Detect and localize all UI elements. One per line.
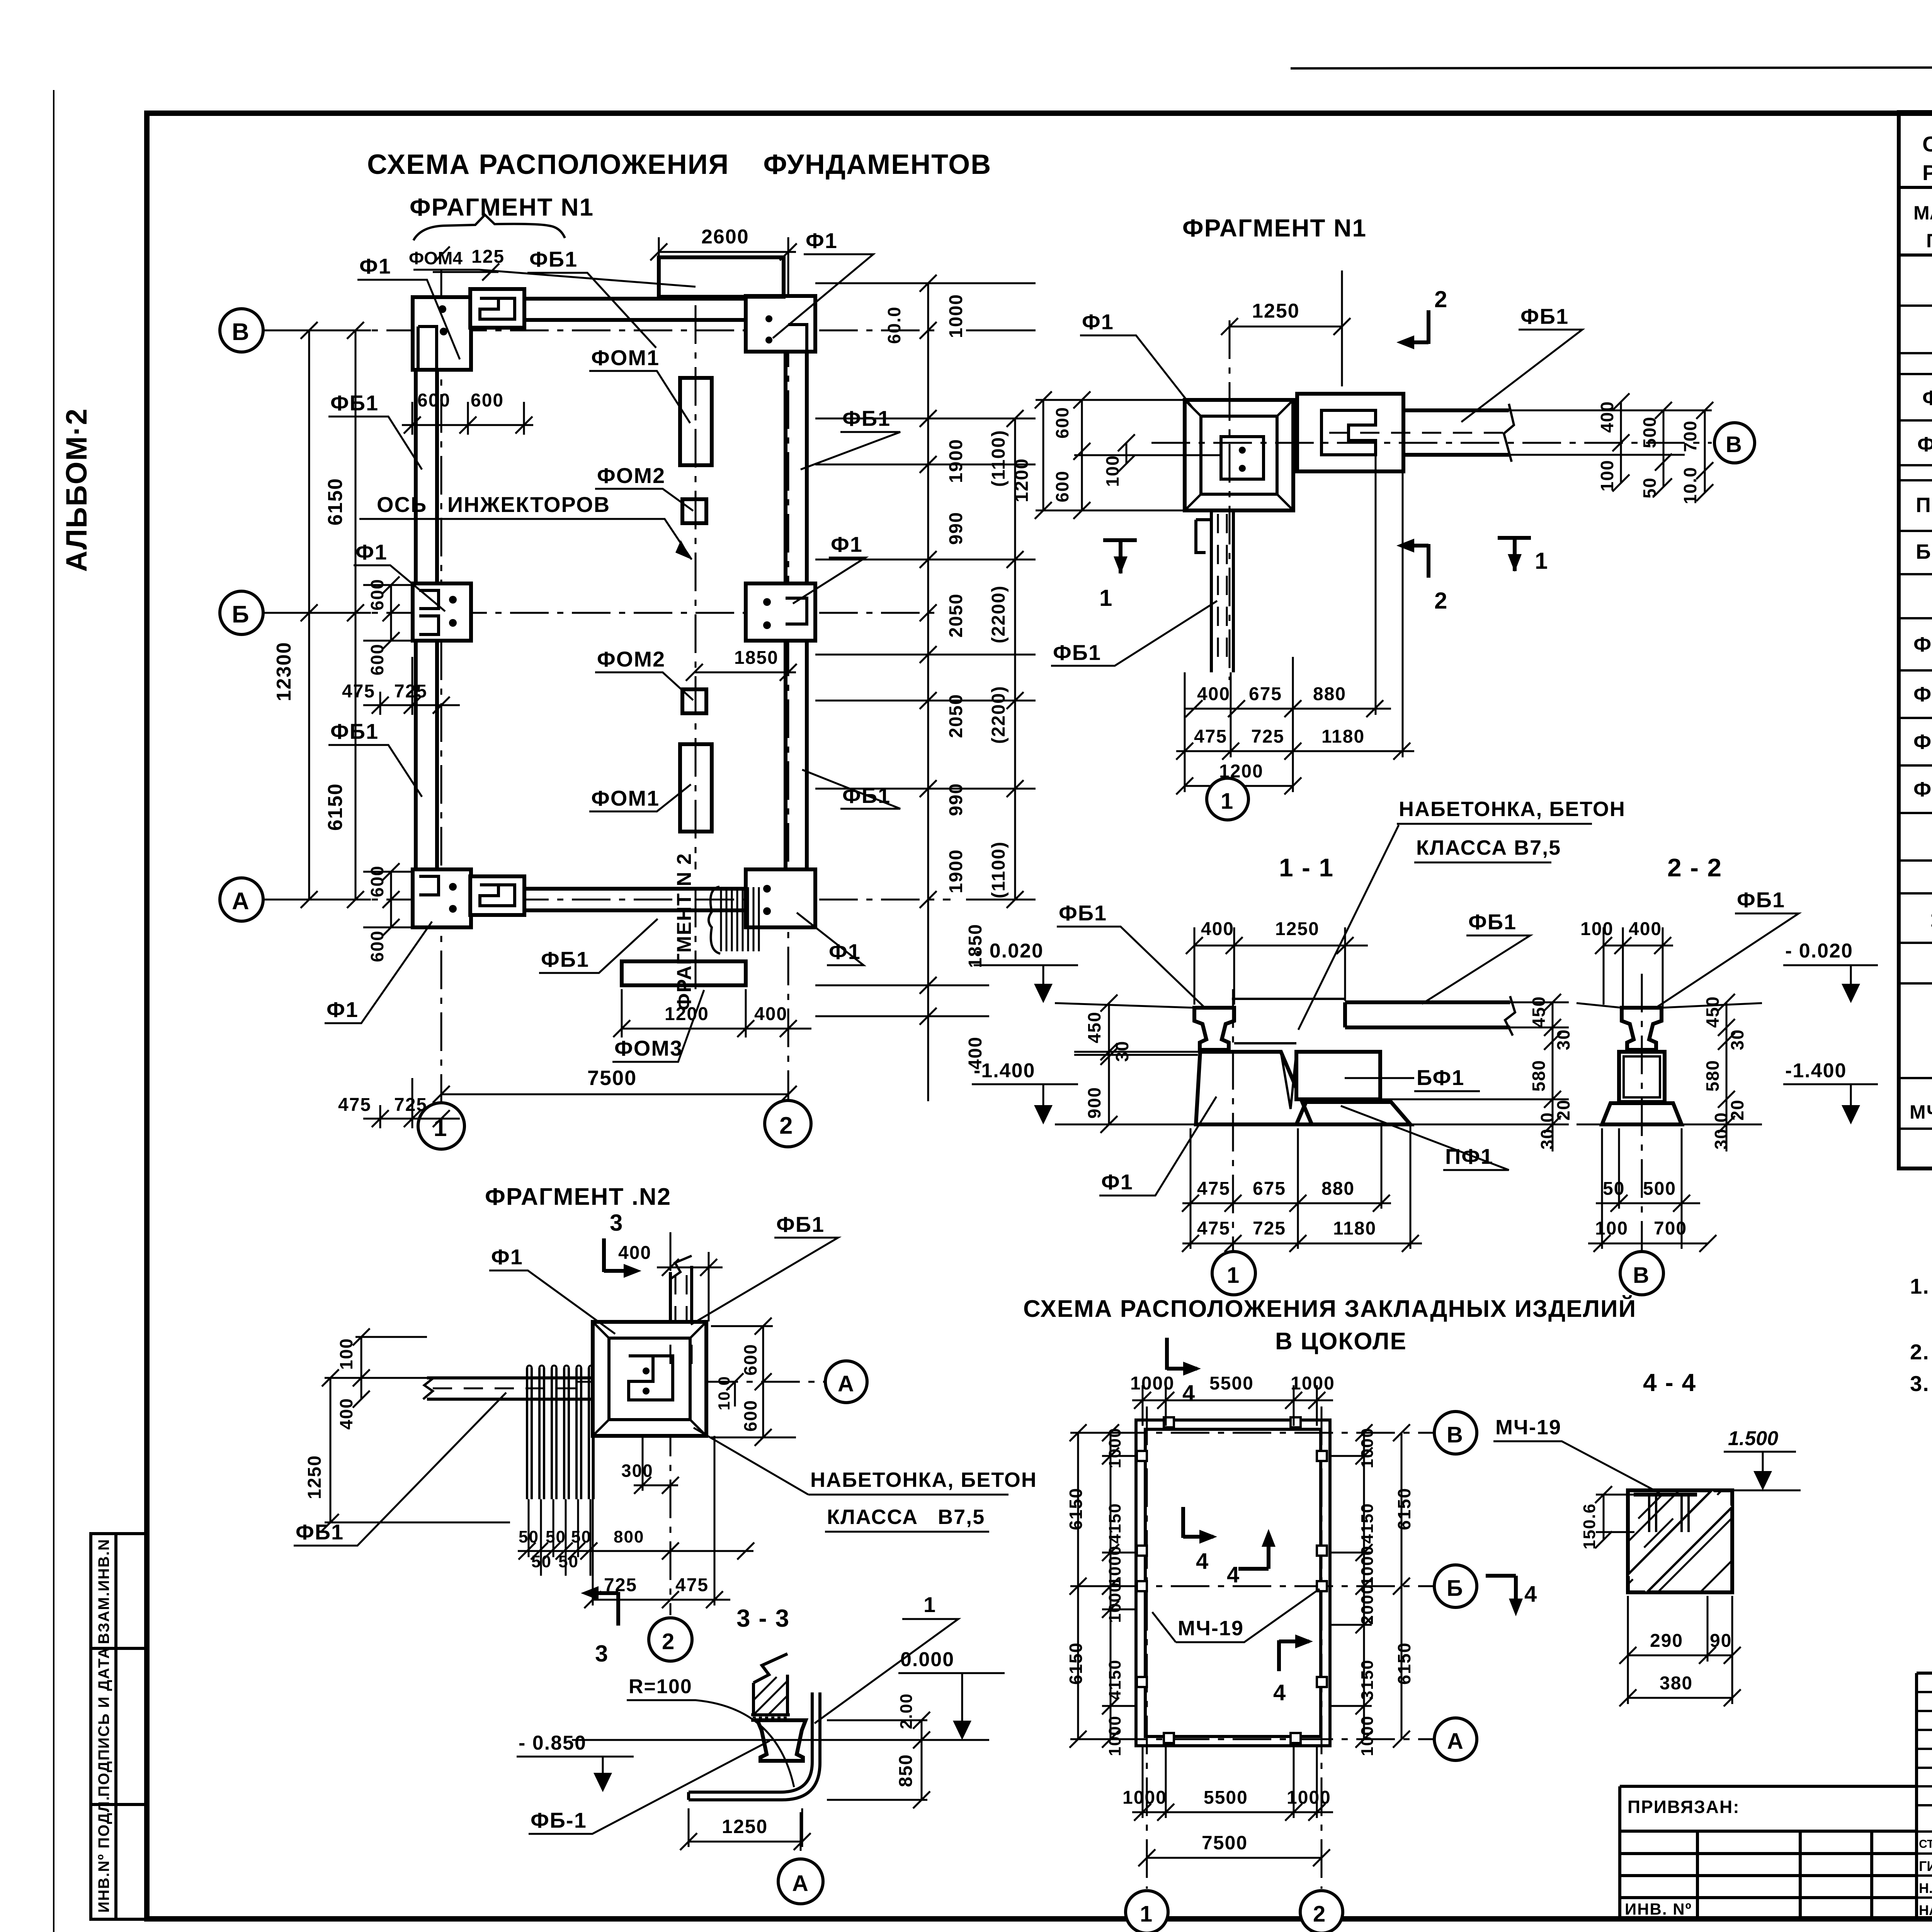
svg-text:475: 475 (342, 681, 375, 702)
svg-text:475: 475 (1197, 1179, 1230, 1199)
svg-text:2600: 2600 (701, 226, 749, 248)
outer thin sheet border left (53, 90, 54, 1932)
svg-text:3 - 3: 3 - 3 (736, 1604, 790, 1632)
svg-text:725: 725 (1251, 726, 1284, 747)
svg-text:ФБ1: ФБ1 (1059, 901, 1107, 925)
fragment N2 axis circle A (825, 1361, 867, 1403)
svg-text:3. РАЗМЕРЫ В СКОБКАХ ДАНЫ ДЛЯ: 3. РАЗМЕРЫ В СКОБКАХ ДАНЫ ДЛЯ МЕТАНТЕНКО… (1910, 1371, 1932, 1396)
svg-text:В: В (1633, 1263, 1650, 1288)
svg-text:30: 30 (1727, 1029, 1747, 1050)
fragment N2 rebar comb (527, 1368, 594, 1499)
svg-text:450: 450 (1702, 996, 1723, 1028)
svg-text:ФОМ2: ФОМ2 (1913, 683, 1932, 706)
svg-text:4 - 4: 4 - 4 (1643, 1369, 1696, 1396)
pad F1 top-right (746, 296, 815, 352)
svg-text:АЛЬБОМ·2: АЛЬБОМ·2 (60, 408, 93, 572)
equipment foundation FOM4 (659, 257, 784, 297)
svg-text:50: 50 (558, 1552, 579, 1571)
svg-text:2: 2 (779, 1112, 793, 1139)
svg-text:3: 3 (595, 1641, 609, 1667)
svg-text:(1100): (1100) (988, 430, 1009, 487)
axis line B (263, 330, 943, 332)
svg-text:5500: 5500 (1209, 1373, 1254, 1394)
svg-text:300: 300 (621, 1461, 653, 1481)
zakladnye section mark 4 top (1167, 1338, 1197, 1370)
svg-text:РАСПОЛОЖЕНИЯ ЗАКЛАДНЫХ ИЗДЕЛИЙ: РАСПОЛОЖЕНИЯ ЗАКЛАДНЫХ ИЗДЕЛИЙ В ЦОКОЛЕ (1922, 160, 1932, 185)
svg-text:ФОМ2: ФОМ2 (597, 647, 665, 671)
fragment N1 pad inner bevel (1201, 416, 1277, 494)
injector axis line with arrow (359, 519, 692, 560)
svg-text:ФБ1: ФБ1 (529, 247, 578, 271)
pad bottom-left dots (449, 883, 457, 891)
section 2-2 FB1 tee profile (1622, 1008, 1662, 1050)
svg-text:МАРКА: МАРКА (1913, 202, 1932, 224)
svg-text:2050: 2050 (946, 694, 966, 738)
section 1-1 F1 trapezoid (1196, 1052, 1312, 1124)
svg-text:4: 4 (1524, 1582, 1537, 1607)
svg-text:725: 725 (1253, 1218, 1286, 1239)
section 2-2 axis vertical (1641, 974, 1643, 1251)
pad top-right dots (765, 315, 772, 322)
svg-text:ВЗАМ.ИНВ.N: ВЗАМ.ИНВ.N (95, 1539, 112, 1644)
svg-text:1000: 1000 (1105, 1545, 1124, 1586)
svg-text:СХЕМА РАСПОЛОЖЕНИЯ ЗАКЛАДНЫХ И: СХЕМА РАСПОЛОЖЕНИЯ ЗАКЛАДНЫХ ИЗДЕЛИЙ (1023, 1295, 1636, 1322)
fragment N2 beam inside pad dashed (670, 1345, 692, 1376)
svg-text:-1.400: -1.400 (974, 1060, 1035, 1082)
fragment N2 beam top break (670, 1256, 692, 1279)
fragment N2 section mark 3 lower (592, 1592, 618, 1626)
svg-text:100: 100 (1595, 1218, 1628, 1239)
svg-text:475: 475 (338, 1095, 371, 1115)
fragment N2 axis 2 vertical (670, 1232, 672, 1615)
equipment foundation FOM2 lower (682, 689, 706, 713)
svg-text:(2200): (2200) (988, 585, 1009, 643)
rebar comb fragment2 zone (721, 887, 759, 951)
svg-text:725: 725 (394, 1095, 427, 1115)
svg-text:ИНВ. Nº: ИНВ. Nº (1625, 1900, 1692, 1918)
svg-text:0.000: 0.000 (900, 1648, 954, 1671)
svg-text:1. ДАННЫЙ ЧЕРТЕЖ СМОТРИТЕ СОВ: 1. ДАННЫЙ ЧЕРТЕЖ СМОТРИТЕ СОВМЕСТНО С ЛИ… (1910, 1274, 1932, 1298)
fragment N2 beam from top (670, 1266, 692, 1345)
section 4-4 top plate (1634, 1493, 1697, 1497)
svg-text:400: 400 (1597, 401, 1617, 433)
section 1-1 FB1 tee profile (1194, 1008, 1234, 1050)
pad top-left notch (418, 327, 437, 370)
svg-text:Ф1: Ф1 (1922, 386, 1932, 410)
zakladnye plan walls (1136, 1420, 1330, 1746)
svg-text:3: 3 (610, 1210, 623, 1236)
svg-text:В: В (1726, 432, 1743, 457)
svg-text:ФБ1: ФБ1 (776, 1212, 825, 1236)
svg-text:10.0: 10.0 (715, 1376, 733, 1410)
svg-text:В: В (232, 319, 250, 345)
svg-text:1000: 1000 (1130, 1373, 1175, 1394)
svg-text:1900: 1900 (946, 849, 966, 893)
svg-text:675: 675 (1253, 1179, 1286, 1199)
zakladnye MCH squares left (1137, 1451, 1147, 1461)
pad F1 mid-right (746, 583, 815, 641)
svg-text:4: 4 (1196, 1549, 1209, 1574)
section 1-1 PF1 trapezoid (1296, 1102, 1410, 1124)
svg-text:450: 450 (1529, 996, 1549, 1028)
zakladnye section mark 4 inner mid (1238, 1540, 1269, 1569)
beam anchor inner top-left (480, 298, 515, 319)
svg-text:1850: 1850 (734, 648, 779, 668)
svg-text:1200: 1200 (1012, 458, 1032, 502)
section 1-1 BF1 block (1296, 1052, 1380, 1099)
pad F1 bottom-left (413, 869, 471, 927)
svg-text:475: 475 (675, 1575, 709, 1595)
svg-text:5500: 5500 (1204, 1787, 1248, 1808)
svg-text:450: 450 (1084, 1011, 1104, 1043)
svg-text:700: 700 (1680, 420, 1700, 452)
svg-text:ОСЬ ИНЖЕКТОРОВ: ОСЬ ИНЖЕКТОРОВ (377, 492, 610, 517)
equipment foundation FOM2 upper (682, 499, 706, 523)
svg-text:НАБЕТОНКА, БЕТОН: НАБЕТОНКА, БЕТОН (1399, 798, 1626, 821)
svg-text:НАЧ.АСО: НАЧ.АСО (1919, 1902, 1932, 1918)
svg-text:БФ1: БФ1 (1417, 1065, 1464, 1090)
svg-text:ФРАГМЕНТ .N2: ФРАГМЕНТ .N2 (485, 1184, 671, 1210)
svg-text:ФБ1: ФБ1 (1520, 304, 1569, 328)
svg-text:4150: 4150 (1105, 1659, 1124, 1700)
axis circle B2 (220, 591, 263, 634)
svg-text:Ф1: Ф1 (1082, 310, 1114, 334)
svg-text:1000: 1000 (1358, 1545, 1377, 1586)
equipment foundation FOM1 lower (680, 744, 712, 832)
beam anchor inner bottom-left (480, 885, 515, 906)
svg-text:600: 600 (417, 390, 451, 411)
svg-text:675: 675 (1249, 684, 1282, 704)
section 2-2 pad trapezoid (1602, 1103, 1682, 1124)
svg-text:МЧ-19: МЧ-19 (1495, 1416, 1561, 1439)
fragment N1 section mark 1 right (1498, 538, 1531, 571)
svg-text:1.500: 1.500 (1728, 1427, 1778, 1450)
svg-text:880: 880 (1321, 1179, 1355, 1199)
equipment foundation FOM3 (622, 961, 746, 985)
svg-text:4150: 4150 (1105, 1503, 1124, 1544)
svg-text:4150: 4150 (1358, 1503, 1377, 1544)
zakladnye section mark 4 inner lower (1279, 1640, 1309, 1671)
svg-text:Ф1: Ф1 (359, 254, 391, 278)
svg-text:ФБ1: ФБ1 (296, 1520, 344, 1544)
fragment N1 axis circle B (1714, 423, 1755, 463)
section 3-3 hatched wall block (753, 1654, 787, 1715)
zakladnye MCH squares right (1317, 1451, 1327, 1461)
svg-text:(1100): (1100) (988, 841, 1009, 898)
fragment N1 section mark 2 upper (1406, 310, 1429, 344)
axis line A (263, 899, 951, 901)
svg-text:6150: 6150 (1066, 1488, 1086, 1530)
zakladnye axis circles (1434, 1412, 1477, 1454)
zakladnye section mark 4 right of B2 (1486, 1576, 1516, 1605)
svg-text:Ф1: Ф1 (1101, 1170, 1133, 1194)
svg-text:1: 1 (1099, 585, 1113, 611)
svg-text:90: 90 (1710, 1631, 1732, 1651)
svg-text:100: 100 (1580, 919, 1614, 939)
fragment N2 anchor box (629, 1356, 673, 1400)
section 1-1 ground lines (1055, 1003, 1569, 1124)
svg-text:10.0: 10.0 (1680, 466, 1700, 504)
svg-text:100: 100 (1597, 459, 1617, 492)
beam anchor housing bottom-left (470, 876, 524, 915)
svg-text:1: 1 (1221, 789, 1234, 814)
svg-text:ФОМ1: ФОМ1 (591, 345, 660, 370)
svg-text:600: 600 (1052, 470, 1072, 502)
svg-text:7500: 7500 (1202, 1832, 1248, 1854)
svg-text:ФБ1: ФБ1 (1053, 640, 1101, 665)
svg-text:400: 400 (618, 1243, 651, 1263)
svg-text:6150: 6150 (1066, 1642, 1086, 1685)
svg-text:1000: 1000 (1122, 1787, 1167, 1808)
svg-text:400: 400 (1201, 919, 1234, 939)
fragment N1 anchor box (1221, 437, 1264, 479)
svg-text:600: 600 (740, 1344, 760, 1376)
pad mid-right dots (763, 598, 771, 606)
svg-text:ФБ1: ФБ1 (1917, 433, 1932, 456)
axis circle 2 (765, 1100, 811, 1147)
fragment N2 beam from left (427, 1378, 593, 1399)
svg-text:100: 100 (336, 1338, 356, 1370)
svg-text:60.0: 60.0 (884, 306, 904, 344)
svg-text:Н.КОНТР.: Н.КОНТР. (1919, 1880, 1932, 1896)
section 1-1 beam break (1505, 996, 1515, 1036)
svg-text:- 0.020: - 0.020 (1785, 940, 1853, 962)
brace under fragment N1 (413, 215, 565, 240)
svg-text:150.6: 150.6 (1580, 1503, 1599, 1549)
svg-text:ПФ1: ПФ1 (1916, 493, 1932, 517)
svg-text:600: 600 (367, 865, 387, 897)
svg-text:КЛАССА В7,5: КЛАССА В7,5 (1416, 836, 1561, 859)
svg-text:Ф1: Ф1 (491, 1245, 523, 1269)
svg-text:600: 600 (471, 390, 504, 411)
fragment N1 section mark 1 left (1103, 540, 1137, 573)
section 2-2 block (1619, 1052, 1665, 1102)
svg-text:50: 50 (546, 1527, 566, 1546)
svg-text:2: 2 (1313, 1901, 1326, 1927)
svg-text:ФРАГМЕНТ N 2: ФРАГМЕНТ N 2 (673, 853, 696, 1010)
privyazan box (1620, 1786, 1917, 1919)
svg-text:1180: 1180 (1333, 1218, 1376, 1239)
svg-text:В ЦОКОЛЕ: В ЦОКОЛЕ (1275, 1328, 1407, 1355)
svg-text:3150: 3150 (1358, 1659, 1377, 1700)
svg-text:R=100: R=100 (629, 1675, 692, 1698)
pad top-left dots (439, 305, 446, 313)
svg-text:6150: 6150 (324, 478, 347, 526)
section 2-2 circle B (1620, 1252, 1663, 1295)
svg-text:1: 1 (923, 1592, 936, 1617)
svg-text:НАБЕТОНКА, БЕТОН: НАБЕТОНКА, БЕТОН (810, 1468, 1037, 1492)
section 3-3 axis and circle A (800, 1812, 802, 1857)
svg-text:6150: 6150 (1394, 1488, 1414, 1530)
svg-text:1250: 1250 (1275, 919, 1320, 939)
spec table row lines (1899, 187, 1932, 255)
fragment N1 circle 1 (1207, 778, 1248, 820)
fragment N2 pad inner bevel (609, 1338, 690, 1420)
right secondary dim line (1007, 410, 1024, 908)
svg-text:БФ1: БФ1 (1916, 540, 1932, 563)
axis circle A (220, 878, 263, 921)
left stamp strip box (91, 1534, 147, 1919)
svg-text:1000: 1000 (1358, 1427, 1377, 1468)
svg-text:50: 50 (571, 1527, 592, 1546)
svg-text:1000: 1000 (946, 294, 966, 338)
section 4-4 block (1628, 1490, 1732, 1592)
signature table rows (1917, 1692, 1932, 1898)
zakladnye MCH squares top (1164, 1417, 1174, 1427)
section 3-3 MCH plate (751, 1715, 790, 1720)
fragment N2 section mark 3 upper (604, 1238, 631, 1272)
svg-text:1180: 1180 (1321, 726, 1365, 747)
axis line 1 vertical (440, 270, 442, 1103)
svg-text:- 0.850: - 0.850 (519, 1732, 587, 1754)
svg-text:2: 2 (1434, 286, 1448, 312)
zakladnye axis lines (1109, 1406, 1435, 1889)
svg-text:990: 990 (946, 512, 966, 545)
svg-text:-1.400: -1.400 (1785, 1060, 1847, 1082)
pad F1 bottom-right (746, 869, 815, 927)
svg-text:400: 400 (754, 1004, 787, 1024)
svg-text:ПОЗ.: ПОЗ. (1926, 230, 1932, 252)
equipment foundation FOM1 upper (680, 378, 712, 465)
svg-text:А: А (232, 888, 250, 915)
section 2-2 ground lines (1577, 1003, 1762, 1124)
svg-text:ФОМ2: ФОМ2 (597, 463, 665, 488)
fragment N2 circle 2 (649, 1618, 692, 1661)
svg-text:1250: 1250 (1252, 300, 1300, 322)
svg-text:1900: 1900 (946, 439, 966, 483)
svg-text:12300: 12300 (273, 641, 295, 701)
svg-text:Ф1: Ф1 (806, 228, 838, 253)
svg-text:1: 1 (1930, 908, 1932, 931)
fragment N1 housing inner (1321, 410, 1376, 455)
svg-text:2 - 2: 2 - 2 (1667, 853, 1722, 882)
svg-text:1: 1 (1140, 1901, 1153, 1927)
svg-text:4: 4 (1227, 1562, 1240, 1587)
svg-text:ГИП АСО: ГИП АСО (1919, 1858, 1932, 1874)
right dim extension lines (815, 283, 1036, 1016)
svg-text:475: 475 (1197, 1218, 1230, 1239)
axis circle B (220, 309, 263, 352)
right main dim line (920, 275, 937, 1101)
svg-text:700: 700 (1654, 1218, 1687, 1239)
svg-text:Б: Б (1447, 1576, 1464, 1601)
svg-text:400: 400 (336, 1398, 356, 1430)
fragment N1 axis vertical (1229, 320, 1231, 680)
svg-text:А: А (792, 1871, 809, 1896)
svg-text:125: 125 (471, 247, 505, 267)
svg-text:ПРИВЯЗАН:: ПРИВЯЗАН: (1628, 1797, 1740, 1817)
svg-text:ФОМ1: ФОМ1 (1913, 633, 1932, 656)
left wall beam FB1 (416, 328, 437, 900)
svg-text:1: 1 (1535, 548, 1548, 574)
dim line 6150 left (263, 322, 371, 908)
section 3-3 bent angle plate (689, 1692, 820, 1800)
svg-text:4: 4 (1182, 1381, 1196, 1406)
top beam FB1 (475, 299, 786, 320)
svg-text:ФОМ1: ФОМ1 (591, 786, 660, 810)
svg-text:ФОМ3: ФОМ3 (614, 1036, 683, 1060)
svg-text:КЛАССА В7,5: КЛАССА В7,5 (827, 1505, 985, 1529)
svg-text:2: 2 (1434, 588, 1448, 614)
svg-text:500: 500 (1643, 1179, 1676, 1199)
svg-text:МЧ-19: МЧ-19 (1910, 1101, 1932, 1123)
axis circle 1 (418, 1103, 464, 1149)
svg-text:А: А (838, 1371, 855, 1396)
section 1-1 beam FB1 right (1345, 1002, 1510, 1027)
svg-text:А: А (1447, 1729, 1464, 1754)
svg-text:580: 580 (1529, 1060, 1549, 1092)
svg-text:900: 900 (1084, 1087, 1104, 1119)
pad F1 top-left (413, 297, 471, 370)
section 3-3 beam tee below (757, 1720, 806, 1761)
svg-text:ФОМ3: ФОМ3 (1913, 730, 1932, 753)
fragment N1 beam break (1504, 404, 1514, 462)
pad bottom-left notch (419, 876, 439, 895)
fragment N2 zone brace (709, 887, 720, 954)
svg-text:30: 30 (1553, 1029, 1573, 1050)
svg-text:ФОМ4: ФОМ4 (1913, 778, 1932, 801)
section 4-4 diagonal joint (1628, 1490, 1732, 1592)
svg-text:2.00: 2.00 (897, 1693, 916, 1729)
fragment N2 left beam break (423, 1378, 434, 1399)
pad mid-left dots (449, 596, 457, 604)
axis line B2 (Б) (263, 612, 943, 614)
svg-text:ФБ1: ФБ1 (541, 947, 589, 971)
svg-text:ПОДПИСЬ И ДАТА: ПОДПИСЬ И ДАТА (95, 1647, 112, 1797)
bottom beam FB1 (475, 889, 753, 910)
equipment axis vertical (695, 305, 697, 997)
pad mid-left notches (419, 590, 439, 634)
svg-text:ФБ1: ФБ1 (1468, 910, 1517, 934)
pad F1 mid-left (413, 583, 471, 641)
svg-text:ФОМ4: ФОМ4 (409, 248, 463, 268)
fragment N1 housing (1297, 394, 1403, 471)
svg-text:475: 475 (1194, 726, 1227, 747)
svg-text:50: 50 (1603, 1179, 1625, 1199)
svg-text:7500: 7500 (587, 1066, 637, 1090)
axis line 2 vertical (787, 267, 789, 1100)
section 1-1 nabetonka outline (1232, 999, 1345, 1109)
svg-text:1250: 1250 (722, 1816, 768, 1837)
svg-text:50: 50 (1639, 477, 1660, 498)
svg-text:800: 800 (614, 1527, 644, 1546)
signature table columns (1917, 1673, 1932, 1919)
svg-text:Ф1: Ф1 (831, 532, 863, 556)
left stamp strip dividers (91, 1534, 147, 1919)
svg-text:ФРАГМЕНТ N1: ФРАГМЕНТ N1 (410, 193, 594, 221)
svg-text:Ф1: Ф1 (327, 997, 359, 1022)
outer sheet cut line top (1291, 66, 1932, 68)
svg-text:СПЕЦИФИКАЦИЯ К СХЕМЕ РАСПОЛО: СПЕЦИФИКАЦИЯ К СХЕМЕ РАСПОЛОЖЕНИЯ ФУНДАМ… (1922, 132, 1932, 156)
right wall beam FB1 (786, 330, 807, 900)
svg-text:725: 725 (394, 681, 427, 702)
fragment N2 pad outer (593, 1322, 706, 1436)
svg-text:МЧ-19: МЧ-19 (1178, 1617, 1244, 1640)
svg-text:СТ.ИНЖЕНЕР: СТ.ИНЖЕНЕР (1919, 1838, 1932, 1850)
svg-text:1 - 1: 1 - 1 (1279, 853, 1334, 882)
section 4-4 hatch (1628, 1490, 1732, 1592)
svg-text:СХЕМА РАСПОЛОЖЕНИЯ ФУНДАМЕН: СХЕМА РАСПОЛОЖЕНИЯ ФУНДАМЕНТОВ (367, 149, 992, 180)
svg-text:990: 990 (946, 783, 966, 816)
pad mid-right notch (786, 598, 807, 624)
svg-text:1250: 1250 (304, 1455, 325, 1499)
svg-text:850: 850 (896, 1754, 916, 1787)
svg-text:600: 600 (1052, 406, 1072, 439)
svg-text:290: 290 (1650, 1631, 1683, 1651)
zakladnye MCH squares bottom (1164, 1733, 1174, 1743)
fragment N1 beam FB1 (1403, 410, 1509, 455)
section 3-3 ground level line (572, 1739, 989, 1741)
